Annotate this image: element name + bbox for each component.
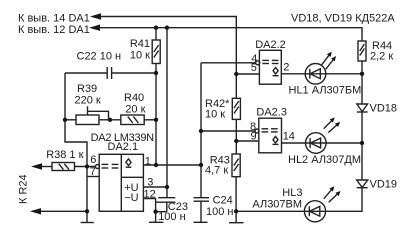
- capacitor C22: [65, 67, 156, 79]
- label HL3: [282, 187, 302, 199]
- node dot HL1 VD18: [360, 72, 364, 76]
- wire: pin 7 to ground column: [87, 176, 99, 178]
- pin 7 label: [90, 166, 96, 178]
- comparator DA2.3: [259, 118, 282, 153]
- arrow to pin 12 DA1: [89, 25, 100, 31]
- svg-text:DA2.3: DA2.3: [256, 107, 287, 119]
- label HL2 АЛ307ДМ: [288, 154, 361, 166]
- svg-text:DA2.1: DA2.1: [108, 141, 139, 153]
- svg-text:VD19: VD19: [370, 179, 398, 191]
- svg-text:К R24: К R24: [18, 174, 30, 204]
- wire: pin 3 to +U rail: [143, 186, 167, 188]
- pin 8 label: [250, 121, 256, 133]
- label VD18, VD19 КД522А: [291, 13, 395, 25]
- svg-text:HL1 АЛ307БМ: HL1 АЛ307БМ: [289, 85, 362, 97]
- pin 6 circle: [96, 165, 100, 169]
- wire: pin 14 to HL2: [282, 142, 306, 144]
- diode VD18: [357, 74, 368, 143]
- wire: pin 12 to ground: [143, 199, 155, 223]
- wire: pin 9: [236, 140, 258, 142]
- label R40 20 к: [124, 92, 146, 116]
- wire: pin 2 to HL1: [281, 73, 305, 75]
- wire: node rail x=156 from C22 to pin 1: [155, 73, 157, 165]
- svg-text:R41: R41: [130, 38, 150, 50]
- label C23 100 н: [158, 201, 188, 223]
- node dot R41 top: [154, 26, 158, 30]
- wire: HL2 to VD column: [326, 142, 362, 144]
- svg-text:C24: C24: [213, 195, 233, 207]
- node dot pin9 R42 bottom: [234, 139, 238, 143]
- wire: lower left to ground junction: [40, 210, 87, 212]
- label R42* 10 к: [205, 98, 230, 120]
- arrow to pin 14 DA1: [90, 13, 101, 19]
- label R38 1 к: [46, 149, 83, 161]
- svg-text:АЛ307ВМ: АЛ307ВМ: [252, 199, 302, 211]
- svg-text:2: 2: [283, 61, 289, 73]
- svg-text:10 к: 10 к: [205, 108, 225, 120]
- node dot R43 HL3 ground: [234, 209, 238, 213]
- ground under C24: [194, 221, 208, 223]
- pin 4 label: [251, 53, 257, 65]
- pin 6 label: [90, 154, 96, 166]
- svg-text:20 к: 20 к: [125, 104, 145, 116]
- arrow to R24: [30, 208, 41, 214]
- pin 12 label: [144, 189, 156, 201]
- wire: pin 8 from DA2.1 output rail: [201, 130, 255, 132]
- resistor R41: [152, 28, 160, 73]
- op-amp DA2.1: [99, 154, 143, 211]
- svg-text:100 н: 100 н: [206, 206, 233, 218]
- label DA2.3: [256, 107, 287, 119]
- node dot pin1 rail b: [199, 163, 203, 167]
- capacitor C24: [194, 198, 210, 222]
- pin 3 label: [147, 177, 153, 189]
- node dot HL2 VD19: [360, 141, 364, 145]
- node: К R24 label rotated: [18, 174, 30, 204]
- node dot R39 left: [63, 118, 67, 122]
- label DA2 LM339N: [91, 132, 155, 144]
- LED HL1: [305, 52, 336, 85]
- label R39 220 к: [75, 83, 101, 106]
- node dot pin3: [165, 185, 169, 189]
- wire: top rail К выв. 14 DA1 to DA2.2 pin 5 column: [100, 17, 236, 99]
- label R41 10 к: [130, 38, 150, 61]
- label DA2.1: [108, 141, 139, 153]
- svg-text:С22 10 н: С22 10 н: [77, 50, 122, 62]
- pin 1 label: [145, 156, 151, 168]
- wire: pin 4 from DA2.1 output rail: [201, 62, 256, 64]
- svg-text:К выв. 12 DA1: К выв. 12 DA1: [18, 24, 90, 36]
- ground under pin 12 / C23: [149, 221, 164, 223]
- node dot pin12 C23 ground: [153, 210, 157, 214]
- pin 8 circle: [255, 129, 259, 133]
- wire: HL3 to R43 ground node: [236, 210, 304, 212]
- label R44 2,2 к: [370, 40, 393, 63]
- pin 9 label: [251, 131, 257, 143]
- resistor R43: [232, 141, 240, 211]
- svg-text:10 к: 10 к: [130, 50, 150, 62]
- label VD18: [370, 103, 398, 115]
- comparator DA2.2: [259, 50, 281, 84]
- resistor R39 trimmer: [65, 106, 110, 124]
- pin 2 label: [283, 61, 289, 73]
- node dot pin1 rail a: [154, 163, 158, 167]
- svg-text:2,2 к: 2,2 к: [370, 51, 393, 63]
- node: К выв. 14 DA1 label: [18, 12, 90, 24]
- node dot R38 pin6: [85, 164, 89, 168]
- capacitor C23: [156, 198, 176, 212]
- svg-text:DA2.2: DA2.2: [255, 39, 286, 51]
- resistor R42: [232, 98, 240, 141]
- ground left: [81, 211, 94, 222]
- svg-text:−U: −U: [124, 192, 138, 204]
- node dot pin5: [234, 72, 238, 76]
- pin 5 label: [251, 62, 257, 74]
- svg-text:VD18, VD19 КД522А: VD18, VD19 КД522А: [291, 13, 395, 25]
- svg-text:6: 6: [90, 154, 96, 166]
- node dot +U rail top: [165, 26, 169, 30]
- svg-text:4,7 к: 4,7 к: [205, 165, 228, 177]
- label HL1 АЛ307БМ: [289, 85, 362, 97]
- label R43 4,7 к: [205, 155, 230, 177]
- svg-text:R39: R39: [77, 83, 97, 95]
- pin 14 label: [283, 131, 295, 143]
- label DA2.2: [255, 39, 286, 51]
- label С22 10 н: [77, 50, 122, 62]
- node: К выв. 12 DA1 label: [18, 24, 90, 36]
- LED HL3: [304, 186, 340, 222]
- label АЛ307ВМ: [252, 199, 302, 211]
- node dot R41 bottom C22: [154, 71, 158, 75]
- wire: C22 left leg down, over to ground column x=87: [65, 73, 87, 211]
- diode VD19: [326, 143, 368, 211]
- LED HL2: [306, 117, 341, 153]
- svg-text:HL3: HL3: [282, 187, 302, 199]
- wire: HL1 to VD column: [326, 73, 362, 75]
- resistor R40: [110, 115, 156, 125]
- svg-text:R40: R40: [124, 92, 144, 104]
- resistor R44: [358, 41, 366, 74]
- pin 4 circle: [256, 61, 260, 65]
- svg-text:14: 14: [283, 131, 295, 143]
- svg-text:VD18: VD18: [370, 103, 398, 115]
- wire: DA2.1 output rail x=201: [200, 63, 202, 198]
- wire: +U rail x=167 down to pin 3 and C23: [166, 28, 168, 198]
- svg-text:HL2 АЛ307ДМ: HL2 АЛ307ДМ: [288, 154, 361, 166]
- svg-text:220 к: 220 к: [75, 94, 101, 106]
- node dot lower-left ground: [85, 209, 89, 213]
- svg-text:R38 1 к: R38 1 к: [46, 149, 83, 161]
- label VD19: [370, 179, 398, 191]
- wire: pin 1 output: [143, 164, 201, 166]
- wire: pin 5: [236, 73, 259, 75]
- svg-text:9: 9: [251, 131, 257, 143]
- svg-text:К выв. 14 DA1: К выв. 14 DA1: [18, 12, 90, 24]
- resistor R38: [31, 163, 96, 171]
- node dot pin8: [199, 129, 203, 133]
- node dot R40 right: [154, 118, 158, 122]
- ground under R43 / HL3: [229, 211, 244, 222]
- wire: supply rail К выв. 12 DA1 to R44: [99, 28, 362, 41]
- svg-text:5: 5: [251, 62, 257, 74]
- svg-text:100 н: 100 н: [158, 211, 185, 223]
- node dot R39 wiper R40: [108, 118, 112, 122]
- label C24 100 н: [206, 195, 233, 219]
